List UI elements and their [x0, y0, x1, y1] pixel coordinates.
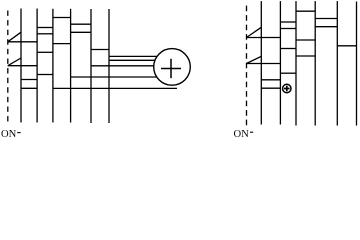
rung S6 long [247, 37, 281, 39]
rung f long [8, 41, 37, 43]
rung g [53, 43, 71, 45]
rung S14 [261, 87, 280, 89]
label ON- left [1, 129, 16, 140]
diagonal d1 [8, 32, 21, 42]
plus sign vertical [170, 59, 172, 78]
wire W1 [260, 1, 262, 124]
wire W3 [295, 1, 297, 125]
right structure dashed bond line [246, 6, 248, 127]
rung S7 [296, 39, 315, 41]
rung a [53, 17, 71, 19]
wire V5 [90, 9, 92, 123]
diagonal d2 [8, 58, 21, 66]
rung S4 [281, 21, 297, 23]
rung j [37, 51, 53, 53]
small plus vertical [286, 86, 288, 92]
rung S10 [296, 55, 315, 57]
wire W4 [314, 1, 316, 125]
small circled plus [283, 84, 291, 92]
superscript minus left [17, 132, 20, 134]
rung e [37, 33, 53, 35]
plus sign horizontal [161, 68, 181, 70]
wire V1 [20, 9, 22, 123]
rung l [8, 65, 37, 67]
diagonal e1 [247, 27, 262, 37]
rung S5 [315, 26, 337, 28]
small plus horizontal [284, 88, 290, 90]
rung S12 [281, 72, 297, 74]
rung i [91, 49, 109, 51]
wire W5 [336, 1, 338, 125]
superscript minus right [250, 131, 253, 133]
rung S8 [337, 45, 357, 47]
connector m [91, 65, 154, 67]
rung q [21, 87, 37, 89]
wire V3 [52, 9, 54, 123]
rung S1 [296, 10, 315, 12]
rung S9 [281, 48, 297, 50]
rung r long [53, 87, 177, 89]
wire V2 [36, 9, 38, 123]
rung p [21, 79, 37, 81]
rung S3 [315, 18, 337, 20]
wire W2 [279, 1, 281, 124]
rung S11 long [247, 63, 281, 65]
rung n [37, 74, 53, 76]
rung S4b [281, 28, 297, 30]
big plus circle [154, 49, 191, 86]
rung c [37, 27, 53, 29]
rung S13 [261, 79, 280, 81]
connector k2 [109, 59, 155, 61]
wire W6 [356, 2, 358, 126]
left structure dashed bond line [7, 11, 9, 122]
label ON- right [234, 129, 249, 140]
rung h [71, 31, 91, 33]
connector k1 [109, 55, 157, 57]
connector o [71, 76, 157, 78]
wire V4 [70, 9, 72, 123]
rung b [71, 23, 91, 25]
wire V6 [108, 9, 110, 123]
diagonal e2 [247, 56, 262, 63]
